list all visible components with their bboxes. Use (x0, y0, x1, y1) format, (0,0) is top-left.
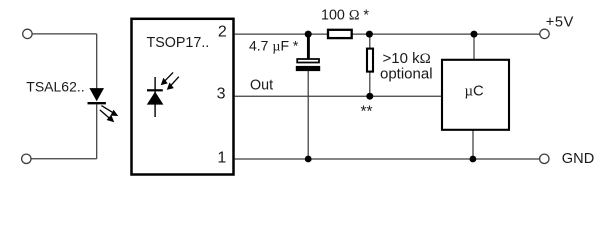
svg-text:TSOP17..: TSOP17.. (147, 35, 210, 51)
svg-text:µC: µC (465, 83, 485, 99)
svg-text:2: 2 (218, 24, 227, 41)
svg-text:+5V: +5V (546, 15, 574, 31)
svg-text:1: 1 (217, 150, 226, 167)
svg-text:3: 3 (217, 85, 226, 102)
svg-text:4.7 µF *: 4.7 µF * (249, 37, 299, 54)
svg-text:optional: optional (380, 65, 433, 82)
svg-text:100 Ω *: 100 Ω * (321, 7, 369, 23)
svg-text:Out: Out (250, 77, 273, 93)
svg-text:TSAL62..: TSAL62.. (26, 78, 84, 94)
svg-text:**: ** (361, 104, 373, 121)
svg-text:GND: GND (562, 151, 594, 167)
